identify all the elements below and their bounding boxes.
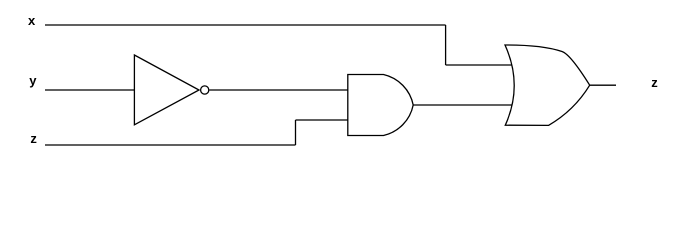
wire: OR output [590, 84, 616, 86]
wire: z vertical rise [295, 120, 297, 145]
inverter U1 bubble [201, 86, 209, 94]
wire: inverter output to AND gate top input [209, 89, 347, 91]
wire: AND output to OR gate bottom input [413, 104, 513, 106]
svg-text:x: x [28, 13, 36, 28]
wire: x vertical drop [445, 25, 447, 65]
svg-text:y: y [29, 73, 37, 88]
wire: x to OR gate top input [446, 64, 513, 66]
OR gate U3 [505, 45, 590, 125]
wire: z input horizontal run [45, 144, 296, 146]
wire: z to AND gate bottom input [296, 119, 348, 121]
AND gate U2 [348, 75, 413, 136]
wire: x input horizontal run [45, 24, 446, 26]
inverter U1 triangle [134, 55, 199, 125]
svg-text:z: z [651, 75, 658, 90]
wire: y input to inverter [45, 89, 134, 91]
svg-text:z: z [30, 131, 37, 146]
